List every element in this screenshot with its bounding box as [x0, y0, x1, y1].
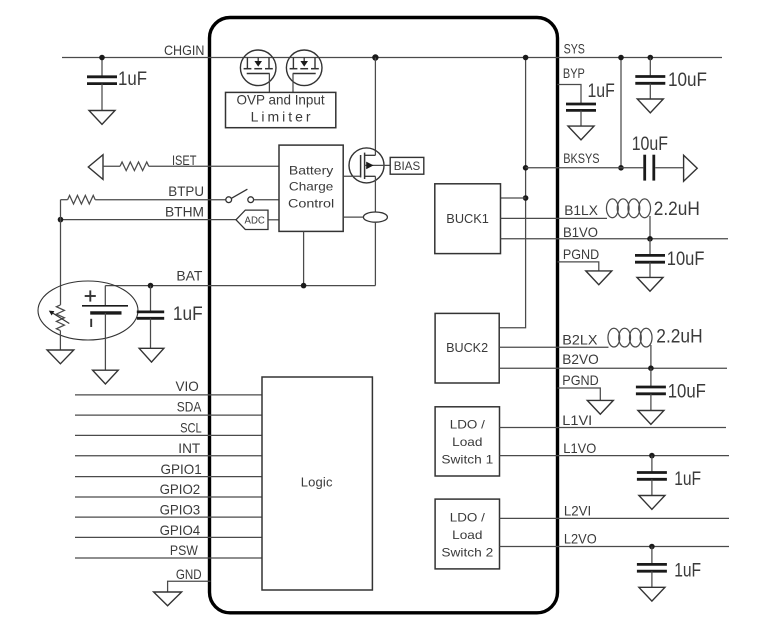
- svg-text:B2VO: B2VO: [562, 351, 598, 367]
- svg-text:L1VI: L1VI: [562, 412, 592, 428]
- svg-text:ADC: ADC: [245, 214, 266, 226]
- svg-text:Battery: Battery: [289, 163, 333, 177]
- svg-text:SCL: SCL: [180, 420, 202, 436]
- svg-text:GPIO2: GPIO2: [160, 481, 201, 497]
- svg-text:1uF: 1uF: [674, 469, 701, 490]
- svg-text:OVP and Input: OVP and Input: [237, 92, 325, 108]
- svg-text:L1VO: L1VO: [563, 440, 596, 456]
- svg-text:2.2uH: 2.2uH: [656, 326, 702, 347]
- svg-text:INT: INT: [178, 440, 200, 456]
- svg-text:ISET: ISET: [172, 152, 197, 168]
- svg-text:SYS: SYS: [564, 41, 585, 57]
- svg-text:PGND: PGND: [562, 372, 598, 388]
- svg-text:1uF: 1uF: [173, 304, 203, 325]
- svg-text:Charge: Charge: [289, 180, 334, 194]
- svg-text:BIAS: BIAS: [394, 159, 420, 173]
- svg-text:BUCK2: BUCK2: [446, 340, 488, 355]
- svg-text:GND: GND: [176, 566, 202, 582]
- svg-text:BTHM: BTHM: [165, 203, 204, 219]
- svg-text:Control: Control: [288, 196, 334, 210]
- svg-text:B1VO: B1VO: [563, 224, 598, 240]
- svg-text:10uF: 10uF: [632, 134, 668, 155]
- svg-text:BAT: BAT: [176, 268, 202, 284]
- svg-text:10uF: 10uF: [668, 381, 706, 402]
- svg-text:1uF: 1uF: [118, 69, 147, 90]
- svg-text:GPIO1: GPIO1: [161, 461, 202, 477]
- svg-text:BYP: BYP: [563, 65, 585, 81]
- svg-text:1uF: 1uF: [588, 81, 615, 102]
- svg-text:PSW: PSW: [170, 542, 199, 558]
- svg-text:B2LX: B2LX: [562, 332, 598, 348]
- svg-text:LDO /: LDO /: [450, 511, 486, 525]
- svg-text:BTPU: BTPU: [168, 183, 204, 199]
- svg-text:LDO /: LDO /: [450, 418, 486, 432]
- svg-text:Switch 1: Switch 1: [441, 452, 493, 466]
- svg-text:10uF: 10uF: [668, 70, 707, 91]
- svg-text:VIO: VIO: [176, 378, 199, 394]
- svg-text:PGND: PGND: [563, 246, 599, 262]
- svg-text:L2VO: L2VO: [564, 531, 597, 547]
- svg-text:10uF: 10uF: [667, 249, 705, 270]
- svg-text:Switch 2: Switch 2: [441, 545, 493, 559]
- svg-text:2.2uH: 2.2uH: [654, 199, 700, 220]
- svg-text:CHGIN: CHGIN: [164, 42, 204, 58]
- svg-text:Load: Load: [452, 528, 482, 542]
- svg-text:SDA: SDA: [177, 399, 202, 415]
- svg-text:Logic: Logic: [301, 474, 333, 489]
- svg-text:BUCK1: BUCK1: [446, 211, 489, 226]
- svg-text:Load: Load: [452, 435, 482, 449]
- svg-text:L2VI: L2VI: [564, 503, 591, 519]
- svg-text:GPIO3: GPIO3: [160, 502, 201, 518]
- svg-text:B1LX: B1LX: [564, 202, 598, 218]
- svg-text:GPIO4: GPIO4: [160, 522, 201, 538]
- svg-text:BKSYS: BKSYS: [563, 150, 599, 166]
- svg-text:1uF: 1uF: [674, 561, 701, 582]
